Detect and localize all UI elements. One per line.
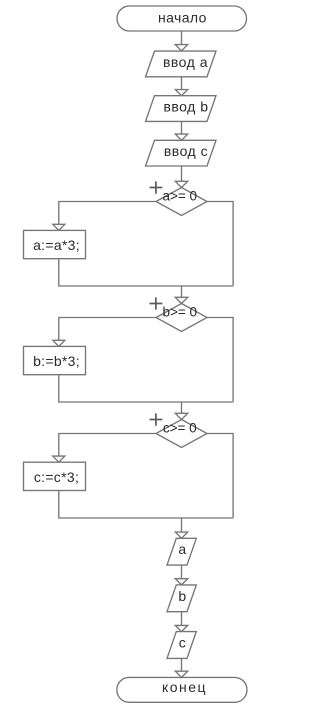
wire decision b false branch to merge line 2 [207, 318, 233, 403]
terminator начало [117, 6, 247, 31]
arrowhead into конец [175, 671, 187, 677]
arrowhead into output a [175, 532, 187, 538]
wire decision c false branch to merge line 3 [207, 434, 233, 519]
plus label decision b [150, 297, 163, 309]
svg-text:b: b [178, 588, 186, 604]
wire decision a false branch to merge line 1 [207, 202, 233, 287]
wire ввод a to ввод b [181, 77, 183, 90]
wire output c to конец [181, 658, 183, 671]
wire rect c to merge line 3 [59, 491, 233, 519]
io block output a [167, 538, 196, 565]
wire decision a true branch to rect a [59, 202, 156, 225]
arrowhead into decision b [175, 297, 187, 303]
svg-text:a>= 0: a>= 0 [163, 189, 198, 204]
wire merge 2 to decision c [181, 402, 183, 413]
svg-text:a:=a*3;: a:=a*3; [33, 237, 80, 253]
wire rect b to merge line 2 [59, 375, 233, 402]
arrowhead into decision c [175, 413, 187, 419]
process rect c:=c*3 [24, 462, 86, 490]
wire output a to output b [181, 565, 183, 579]
decision diamond c>=0 [156, 420, 207, 448]
wire merge 3 to output a [181, 518, 183, 532]
svg-text:b:=b*3;: b:=b*3; [33, 353, 80, 369]
wire rect a to merge line 1 [59, 259, 233, 286]
svg-text:a: a [178, 541, 186, 557]
terminator конец [117, 677, 247, 702]
process rect b:=b*3 [24, 346, 86, 374]
arrowhead into rect a [53, 224, 65, 230]
io block output c [167, 632, 196, 659]
svg-text:конец: конец [162, 679, 207, 695]
svg-text:c>= 0: c>= 0 [163, 421, 197, 436]
decision diamond b>=0 [156, 304, 207, 332]
io block ввод a [146, 51, 217, 77]
svg-text:ввод c: ввод c [164, 143, 208, 159]
arrowhead into decision a [175, 181, 187, 187]
wire decision c true branch to rect c [59, 434, 156, 457]
arrowhead into ввод c [175, 134, 187, 140]
wire начало to ввод a [181, 31, 183, 45]
svg-text:c: c [179, 635, 186, 651]
wire output b to output c [181, 612, 183, 626]
decision diamond a>=0 [156, 188, 207, 216]
svg-text:c:=c*3;: c:=c*3; [34, 469, 79, 485]
io block ввод c [146, 140, 217, 166]
svg-text:b>= 0: b>= 0 [163, 305, 198, 320]
arrowhead into ввод b [175, 90, 187, 96]
svg-text:ввод a: ввод a [163, 54, 208, 70]
wire ввод b to ввод c [181, 121, 183, 134]
wire ввод c to decision a [181, 166, 183, 181]
svg-text:ввод b: ввод b [163, 99, 208, 115]
arrowhead into output b [175, 579, 187, 585]
arrowhead into rect b [53, 340, 65, 346]
wire decision b true branch to rect b [59, 318, 156, 341]
svg-text:начало: начало [158, 10, 207, 26]
plus label decision a [150, 181, 163, 193]
plus label decision c [150, 413, 163, 425]
io block output b [167, 585, 196, 612]
arrowhead into ввод a [175, 45, 187, 51]
arrowhead into output c [175, 625, 187, 631]
process rect a:=a*3 [24, 230, 86, 258]
wire merge 1 to decision b [181, 286, 183, 297]
arrowhead into rect c [53, 456, 65, 462]
io block ввод b [146, 96, 217, 122]
